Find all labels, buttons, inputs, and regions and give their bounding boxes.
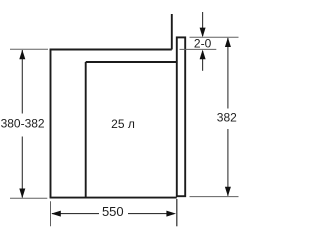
- svg-text:382: 382: [217, 110, 237, 124]
- arrow up (382 top): [225, 37, 231, 47]
- bottom right extension line (382 bottom): [190, 196, 239, 198]
- arrow left (550 left end): [51, 211, 61, 217]
- left top extension line: [10, 48, 48, 50]
- svg-text:380-382: 380-382: [1, 117, 45, 131]
- door front bar: [177, 37, 185, 196]
- dimension line 550 right segment: [128, 213, 174, 215]
- svg-text:2-0: 2-0: [194, 37, 212, 51]
- oven top line: [86, 61, 177, 63]
- arrow down (2-0 upper, pointing to top line): [200, 28, 206, 38]
- dimension line 382 upper segment: [227, 38, 229, 109]
- cabinet front upper line: [171, 14, 173, 50]
- lower right extension line (2-0 bottom): [180, 48, 217, 50]
- arrow down (382 bottom): [225, 187, 231, 197]
- arrow up (2-0 lower, pointing to bottom line): [200, 50, 206, 60]
- dimension stem 2-0 upper: [202, 12, 204, 36]
- arrow down (380-382 bottom): [19, 189, 25, 199]
- dimension stem 2-0 lower: [202, 51, 204, 71]
- left bottom extension line: [10, 197, 47, 199]
- dimension line 382 lower segment: [227, 129, 229, 196]
- dimension line 550 left segment: [52, 213, 99, 215]
- dimension line 380-382 upper segment: [21, 50, 23, 114]
- svg-text:25 л: 25 л: [111, 117, 135, 131]
- upper right extension line (2-0 top / 382 top): [190, 36, 239, 38]
- niche top line: [50, 49, 172, 51]
- dimension line 380-382 lower segment: [21, 137, 23, 198]
- svg-text:550: 550: [102, 204, 124, 219]
- arrow up (380-382 top): [19, 50, 25, 60]
- lower front extension line (550 right): [176, 199, 178, 226]
- left lower extension line (550 left): [50, 201, 52, 226]
- arrow right (550 right end): [166, 211, 176, 217]
- niche left line: [50, 49, 52, 198]
- niche bottom line: [50, 197, 177, 199]
- oven left line: [85, 62, 87, 198]
